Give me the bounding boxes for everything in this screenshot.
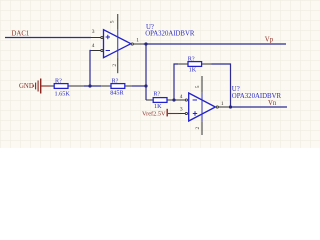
svg-text:R?: R? [153,90,160,97]
svg-text:DAC1: DAC1 [12,31,30,38]
svg-text:Vref2.5V: Vref2.5V [142,110,166,117]
svg-text:OPA320AIDBVR: OPA320AIDBVR [145,30,195,37]
svg-text:1: 1 [136,38,139,44]
svg-text:5: 5 [195,85,201,88]
svg-text:1: 1 [221,101,224,107]
svg-text:GND: GND [19,83,34,90]
svg-text:1K: 1K [189,66,197,73]
svg-text:5: 5 [110,20,116,23]
svg-text:OPA320AIDBVR: OPA320AIDBVR [232,93,282,100]
svg-text:Vp: Vp [265,36,274,43]
svg-text:2: 2 [195,127,201,130]
svg-text:4: 4 [180,94,183,100]
svg-text:R?: R? [112,77,119,84]
svg-text:4: 4 [92,43,95,49]
svg-text:3: 3 [92,29,95,35]
svg-text:1.65K: 1.65K [55,91,71,98]
svg-text:U?: U? [232,86,240,93]
svg-text:R?: R? [55,77,62,84]
svg-text:Vn: Vn [268,100,277,107]
svg-text:845R: 845R [110,90,124,97]
svg-text:2: 2 [112,64,118,67]
svg-text:R?: R? [188,56,195,63]
svg-text:3: 3 [180,107,183,113]
svg-text:1K: 1K [154,103,162,110]
